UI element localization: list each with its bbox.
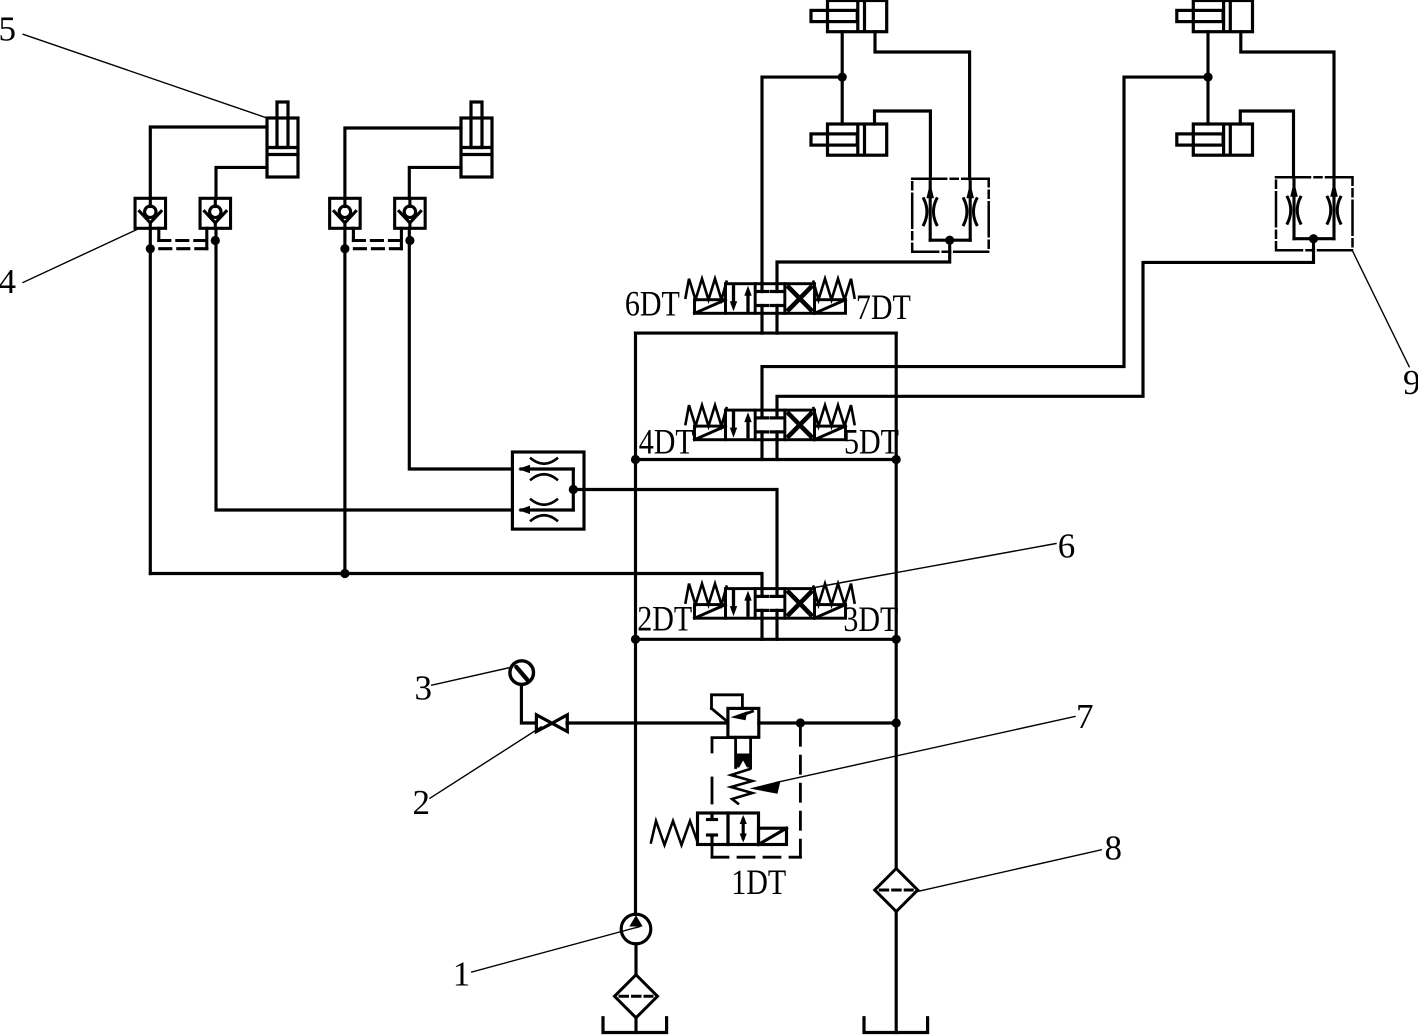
wire flow divider output to 2DT valve top-right port [573, 490, 777, 589]
wire header under 4DT [636, 458, 897, 461]
node [892, 635, 901, 644]
wire T drop to 2DT level [895, 460, 898, 640]
wire relief valve to tank line [759, 721, 896, 724]
wire [775, 440, 778, 460]
node tank line junction [892, 718, 901, 727]
node junction check3 line joins A-line [340, 569, 349, 578]
wire junction B to 6DT top-left port [762, 77, 842, 284]
svg-text:6: 6 [1058, 527, 1076, 566]
flow control box B (left) [912, 179, 989, 252]
wire check valve 3 riser down [343, 228, 346, 573]
node junction B [838, 73, 847, 82]
wire cyl C1 right port to flow control right [1241, 32, 1334, 178]
svg-text:7: 7 [1076, 697, 1094, 736]
leader and label 9 [1352, 251, 1409, 367]
leader and label 6 [815, 544, 1056, 588]
cylinder group C (top right) upper cylinder [1177, 1, 1253, 32]
valve 2DT/3DT, item 6 [686, 584, 855, 619]
valve 6DT/7DT [686, 279, 855, 314]
wire P drop to 4DT level [634, 333, 637, 459]
node [631, 455, 640, 464]
wire T drop to 4DT level [895, 333, 898, 459]
wire gauge line to relief valve [567, 721, 728, 724]
shutoff valve, item 2 [536, 715, 567, 732]
wire filter to tank [634, 1018, 637, 1033]
svg-text:7DT: 7DT [856, 287, 911, 327]
cylinder A2 [461, 102, 492, 177]
wire cyl A2 top port to check valve 3 [345, 128, 461, 198]
wire [775, 618, 778, 639]
wire cyl B1 right port to flow control right [875, 32, 970, 179]
wire 2DT bottom ports [760, 618, 763, 639]
cylinder group A (top-left), cylinder 5 [267, 102, 298, 177]
svg-text:2DT: 2DT [637, 599, 692, 639]
wire cyl A1 bottom port to check valve 2 [216, 167, 267, 198]
svg-text:1: 1 [453, 955, 471, 994]
tank symbol left [603, 1018, 667, 1033]
svg-text:5DT: 5DT [844, 422, 899, 462]
wire cyl B2 right port to flow control left [875, 111, 931, 179]
leader and label 1 [472, 927, 640, 973]
suction filter [615, 975, 658, 1018]
wire 1DT drain (dashed) to tank line [712, 723, 800, 857]
wire flow control B output to 6DT top-right port [777, 252, 950, 284]
wire C cylinders left ports common [1206, 32, 1209, 124]
wire B cylinders left ports common [841, 32, 844, 124]
cylinder B2 lower [811, 124, 887, 155]
wire check valve 4 riser down and to flow divider upper port [409, 228, 512, 469]
leader and label 3 [432, 668, 511, 686]
node [892, 455, 901, 464]
wire [775, 313, 778, 333]
wire cyl A2 bottom port to check valve 4 [409, 167, 461, 198]
cylinder group B (top middle) upper cylinder [811, 1, 887, 32]
pilot check valve pair (valves 3,4) [330, 198, 426, 253]
wire filter 8 to tank [895, 912, 898, 1033]
wire T line down to filter 8 [895, 639, 898, 868]
node junction C [1203, 73, 1212, 82]
svg-text:3DT: 3DT [843, 599, 898, 639]
flow divider valve (speed control) [512, 452, 584, 529]
wire 6DT bottom ports to P and T headers [760, 313, 763, 333]
leader and label 2 [430, 727, 541, 798]
node drain junction [796, 718, 805, 727]
return filter, item 8 [875, 869, 918, 912]
svg-text:4: 4 [0, 262, 16, 301]
valve 4DT/5DT [686, 405, 855, 440]
pilot check valve pair 4 (valves 1,2) [135, 198, 231, 253]
wire junction C to 4DT top-left port [762, 77, 1208, 410]
svg-text:6DT: 6DT [625, 284, 680, 324]
svg-text:8: 8 [1105, 829, 1123, 868]
wire A-line to 2DT valve top-left port [150, 574, 762, 589]
tank symbol right [864, 1018, 928, 1033]
node [631, 635, 640, 644]
wire check valve 1 riser down [149, 228, 152, 573]
wire flow control C output to 4DT top-right port [777, 250, 1314, 410]
cylinder C2 lower [1177, 124, 1253, 155]
leader and label 5 [23, 34, 267, 118]
wire P drop to 2DT level [634, 460, 637, 640]
wire check valve 2 riser down and to flow divider lower port [216, 228, 512, 510]
leader and label 4 [23, 229, 139, 283]
hydraulic pump, item 1 [621, 914, 651, 975]
wire cyl A1 top port to check valve 1 [150, 127, 267, 198]
svg-text:3: 3 [415, 669, 433, 708]
svg-text:5: 5 [0, 10, 16, 49]
svg-text:2: 2 [413, 783, 431, 822]
solenoid unloading valve 1DT [651, 813, 787, 845]
leader and label 7 (arrow to relief pilot spring) [750, 717, 1076, 794]
leader and label 8 [918, 850, 1102, 892]
svg-text:4DT: 4DT [639, 422, 694, 462]
wire 4DT bottom ports [760, 440, 763, 460]
wire header under 2DT [636, 638, 897, 641]
pilot relief valve, item 7 [712, 695, 759, 813]
wire P line down to pump [634, 639, 637, 914]
wire cyl C2 right port to flow control left [1240, 111, 1293, 177]
flow control box C (right), item 9 [1276, 177, 1353, 250]
svg-text:1DT: 1DT [731, 862, 786, 902]
wire header under 6DT [636, 332, 897, 335]
svg-text:9: 9 [1403, 363, 1418, 402]
pressure gauge, item 3 [510, 661, 536, 723]
